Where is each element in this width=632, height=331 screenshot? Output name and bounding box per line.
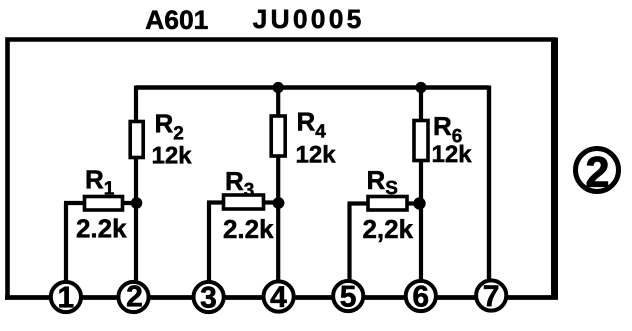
svg-text:R1: R1 (85, 164, 115, 199)
svg-text:2.2k: 2.2k (223, 214, 274, 244)
svg-text:R4: R4 (297, 106, 327, 142)
svg-text:JU0005: JU0005 (253, 4, 365, 34)
svg-text:RS: RS (366, 165, 397, 199)
svg-text:12k: 12k (151, 142, 192, 169)
svg-text:2: 2 (585, 149, 609, 197)
svg-text:12k: 12k (431, 141, 472, 168)
svg-text:12k: 12k (295, 141, 336, 168)
svg-text:1: 1 (57, 281, 74, 314)
svg-text:R2: R2 (155, 108, 184, 144)
svg-text:6: 6 (412, 281, 429, 314)
svg-text:2.2k: 2.2k (76, 213, 127, 243)
svg-text:7: 7 (483, 280, 500, 313)
svg-text:2: 2 (126, 280, 143, 313)
svg-text:2,2k: 2,2k (362, 214, 413, 244)
svg-text:4: 4 (270, 281, 287, 314)
svg-text:R3: R3 (225, 166, 254, 201)
svg-text:A601: A601 (145, 5, 208, 35)
svg-text:5: 5 (340, 281, 357, 314)
svg-text:3: 3 (200, 281, 217, 314)
